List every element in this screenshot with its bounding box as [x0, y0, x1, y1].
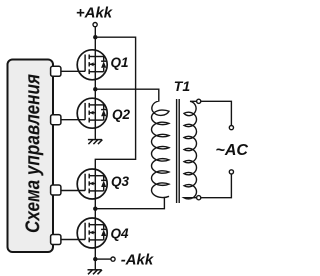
gate wire to Q4: [55, 239, 85, 241]
wire Q1 source to Q2 drain: [94, 80, 96, 98]
wire Q4 source to -Akk node: [94, 248, 96, 269]
node B dot: [93, 207, 97, 211]
svg-text:Q1: Q1: [111, 55, 129, 70]
svg-text:Q4: Q4: [111, 226, 130, 241]
svg-text:-Akk: -Akk: [121, 252, 154, 269]
wire secondary bottom to AC: [201, 174, 232, 198]
block pin square 4: [51, 235, 61, 245]
transistor Q1: [77, 49, 107, 81]
node A dot: [93, 87, 97, 91]
gate wire to Q2: [55, 119, 85, 121]
ground 2: [88, 270, 103, 275]
transformer core: [176, 99, 178, 203]
gate wire to Q3: [55, 190, 85, 192]
transistor Q4: [77, 217, 107, 249]
secondary top terminal: [197, 99, 201, 103]
+Akk terminal: [93, 23, 97, 27]
AC bottom terminal: [229, 170, 233, 174]
svg-text:Схема управления: Схема управления: [22, 74, 44, 233]
svg-text:Q3: Q3: [111, 174, 130, 189]
transformer secondary winding: [184, 101, 197, 199]
wire secondary top to AC: [201, 101, 232, 125]
transformer primary winding: [95, 89, 169, 209]
block pin square 3: [51, 185, 61, 195]
svg-text:T1: T1: [174, 78, 191, 94]
block pin square 1: [51, 66, 61, 76]
ground 1: [88, 140, 103, 145]
svg-text:Q2: Q2: [112, 107, 131, 122]
secondary bottom terminal: [197, 196, 201, 200]
block pin square 2: [51, 115, 61, 125]
gate wire to Q1: [55, 70, 85, 72]
svg-text:+Akk: +Akk: [76, 5, 113, 22]
transistor Q2: [77, 97, 107, 129]
wire Q2 source down: [94, 128, 96, 139]
node dot -Akk: [93, 257, 97, 261]
wire Q3 source to Q4 drain: [94, 199, 96, 218]
wire +Akk to Q1 drain: [94, 27, 96, 50]
node dot +rail: [93, 35, 97, 39]
wire to -Akk terminal: [95, 258, 111, 260]
+rail wire to Q3 drain: [95, 37, 135, 169]
transistor Q3: [77, 168, 107, 200]
svg-text:~AC: ~AC: [216, 142, 249, 159]
AC top terminal: [229, 126, 233, 130]
control block box: [8, 60, 54, 253]
-Akk terminal: [111, 257, 115, 261]
